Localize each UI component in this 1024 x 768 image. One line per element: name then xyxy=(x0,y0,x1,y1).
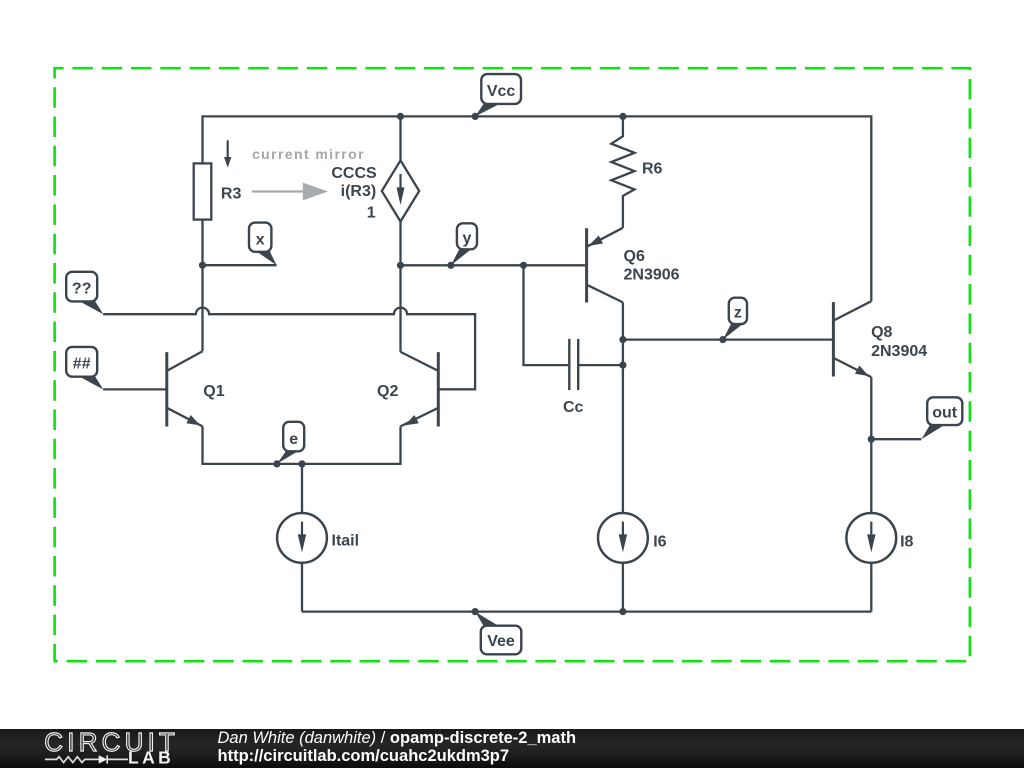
wire input ## to Q1 base xyxy=(103,388,167,390)
svg-text:z: z xyxy=(734,304,742,321)
wire node x stub xyxy=(203,264,277,266)
svg-text:Q1: Q1 xyxy=(203,383,224,400)
svg-text:out: out xyxy=(932,404,958,421)
wire emitter bus node e xyxy=(203,426,401,464)
node flag y xyxy=(451,223,477,265)
transistor Q6 xyxy=(587,228,623,303)
current source I6 xyxy=(598,513,648,563)
junction dot node y at Cc branch xyxy=(520,262,527,269)
transistor Q1 label xyxy=(203,383,224,400)
wire CCCS top lead xyxy=(399,116,401,160)
resistor R3 xyxy=(194,163,212,219)
junction dot top rail at Vcc xyxy=(472,113,479,120)
CircuitLab logo xyxy=(42,729,212,768)
node flag Vcc xyxy=(475,74,521,116)
node flag Vee xyxy=(475,612,521,655)
junction dot node out xyxy=(868,436,875,443)
junction dot top rail at CCCS xyxy=(397,113,404,120)
annotation gray arrow R3 to CCCS xyxy=(252,183,328,201)
transistor Q1 xyxy=(167,351,203,426)
footer credit line xyxy=(218,730,577,765)
CCCS labels xyxy=(331,165,377,222)
transistor Q2 xyxy=(401,352,439,427)
CCCS dependent source xyxy=(382,160,419,221)
wire node y net to Q6 base xyxy=(401,264,587,266)
node flag ## xyxy=(66,347,103,390)
wire Cc branch from node y net xyxy=(524,265,623,365)
transistor Q6 labels xyxy=(624,248,680,283)
capacitor Cc value label xyxy=(563,399,584,416)
transistor Q2 label xyxy=(377,383,398,400)
wire bottom rail Vee xyxy=(302,610,871,612)
node flag out xyxy=(921,397,962,439)
wire Itail leads xyxy=(301,464,303,612)
svg-text:e: e xyxy=(289,431,298,448)
svg-text:Q6: Q6 xyxy=(624,248,645,265)
annotation current direction arrow at R3 xyxy=(224,140,231,167)
svg-text:2N3906: 2N3906 xyxy=(624,266,680,283)
current source I8 label xyxy=(900,533,913,550)
junction dot Cc right plate xyxy=(619,362,626,369)
current source Itail label xyxy=(332,533,360,550)
resistor R3 value label xyxy=(221,185,242,202)
capacitor Cc xyxy=(569,339,578,390)
svg-text:Vee: Vee xyxy=(487,633,515,650)
svg-text:R3: R3 xyxy=(221,185,242,202)
wire R3 bottom to node x to Q1 collector xyxy=(201,220,203,352)
svg-text:I8: I8 xyxy=(900,533,913,550)
svg-text:I6: I6 xyxy=(653,533,666,550)
svg-text:LAB: LAB xyxy=(128,748,174,768)
junction dot bottom rail at I6 xyxy=(619,608,626,615)
svg-text:2N3904: 2N3904 xyxy=(871,343,927,360)
node flag z xyxy=(723,298,747,340)
junction dot node e at Itail xyxy=(298,460,305,467)
junction dot node e flag attach xyxy=(273,460,280,467)
wire CCCS bottom to node y to Q2 collector xyxy=(399,222,401,352)
svg-text:Vcc: Vcc xyxy=(487,83,516,100)
junction dot node x xyxy=(199,262,206,269)
svg-text:Itail: Itail xyxy=(332,533,360,550)
current source I8 xyxy=(846,513,896,563)
svg-text:R6: R6 xyxy=(642,161,663,178)
wire node out stub xyxy=(871,438,921,440)
node flag e xyxy=(277,422,304,464)
annotation text current mirror xyxy=(252,146,365,162)
footer bar xyxy=(0,729,1024,768)
resistor R6 xyxy=(611,116,634,227)
wire input ?? to Q2 base with hops xyxy=(103,308,475,390)
current source I6 label xyxy=(653,533,666,550)
node flag ?? xyxy=(66,272,103,315)
junction dot node y at CCCS xyxy=(397,262,404,269)
junction dot node z at Q6 collector xyxy=(619,336,626,343)
svg-text:CCCS: CCCS xyxy=(331,165,377,182)
current source Itail xyxy=(277,513,327,563)
node flag x xyxy=(249,223,277,266)
wire top rail Vcc with drops to R3 and Q8 collector xyxy=(203,116,872,301)
svg-text:Q2: Q2 xyxy=(377,383,398,400)
svg-text:Cc: Cc xyxy=(563,399,584,416)
junction dot node z flag attach xyxy=(719,336,726,343)
svg-text:??: ?? xyxy=(72,280,92,297)
junction dot top rail at R6 xyxy=(619,113,626,120)
transistor Q8 labels xyxy=(871,324,927,360)
wire node z net to Q8 base xyxy=(623,338,834,340)
wire Q6 collector down through z and Cc to I6 xyxy=(622,302,624,611)
wire Q8 emitter down through out to I8 xyxy=(870,377,872,611)
transistor Q8 xyxy=(833,301,871,377)
svg-text:y: y xyxy=(462,230,471,247)
svg-text:i(R3): i(R3) xyxy=(341,183,377,200)
junction dot bottom rail at Vee xyxy=(472,608,479,615)
resistor R6 value label xyxy=(642,161,663,178)
junction dot node y flag attach xyxy=(447,262,454,269)
svg-text:current mirror: current mirror xyxy=(252,146,365,162)
svg-text:##: ## xyxy=(73,355,91,372)
svg-text:Q8: Q8 xyxy=(871,324,892,341)
simulation boundary dashed box xyxy=(55,68,970,661)
svg-text:1: 1 xyxy=(367,205,376,222)
svg-text:x: x xyxy=(256,232,265,249)
